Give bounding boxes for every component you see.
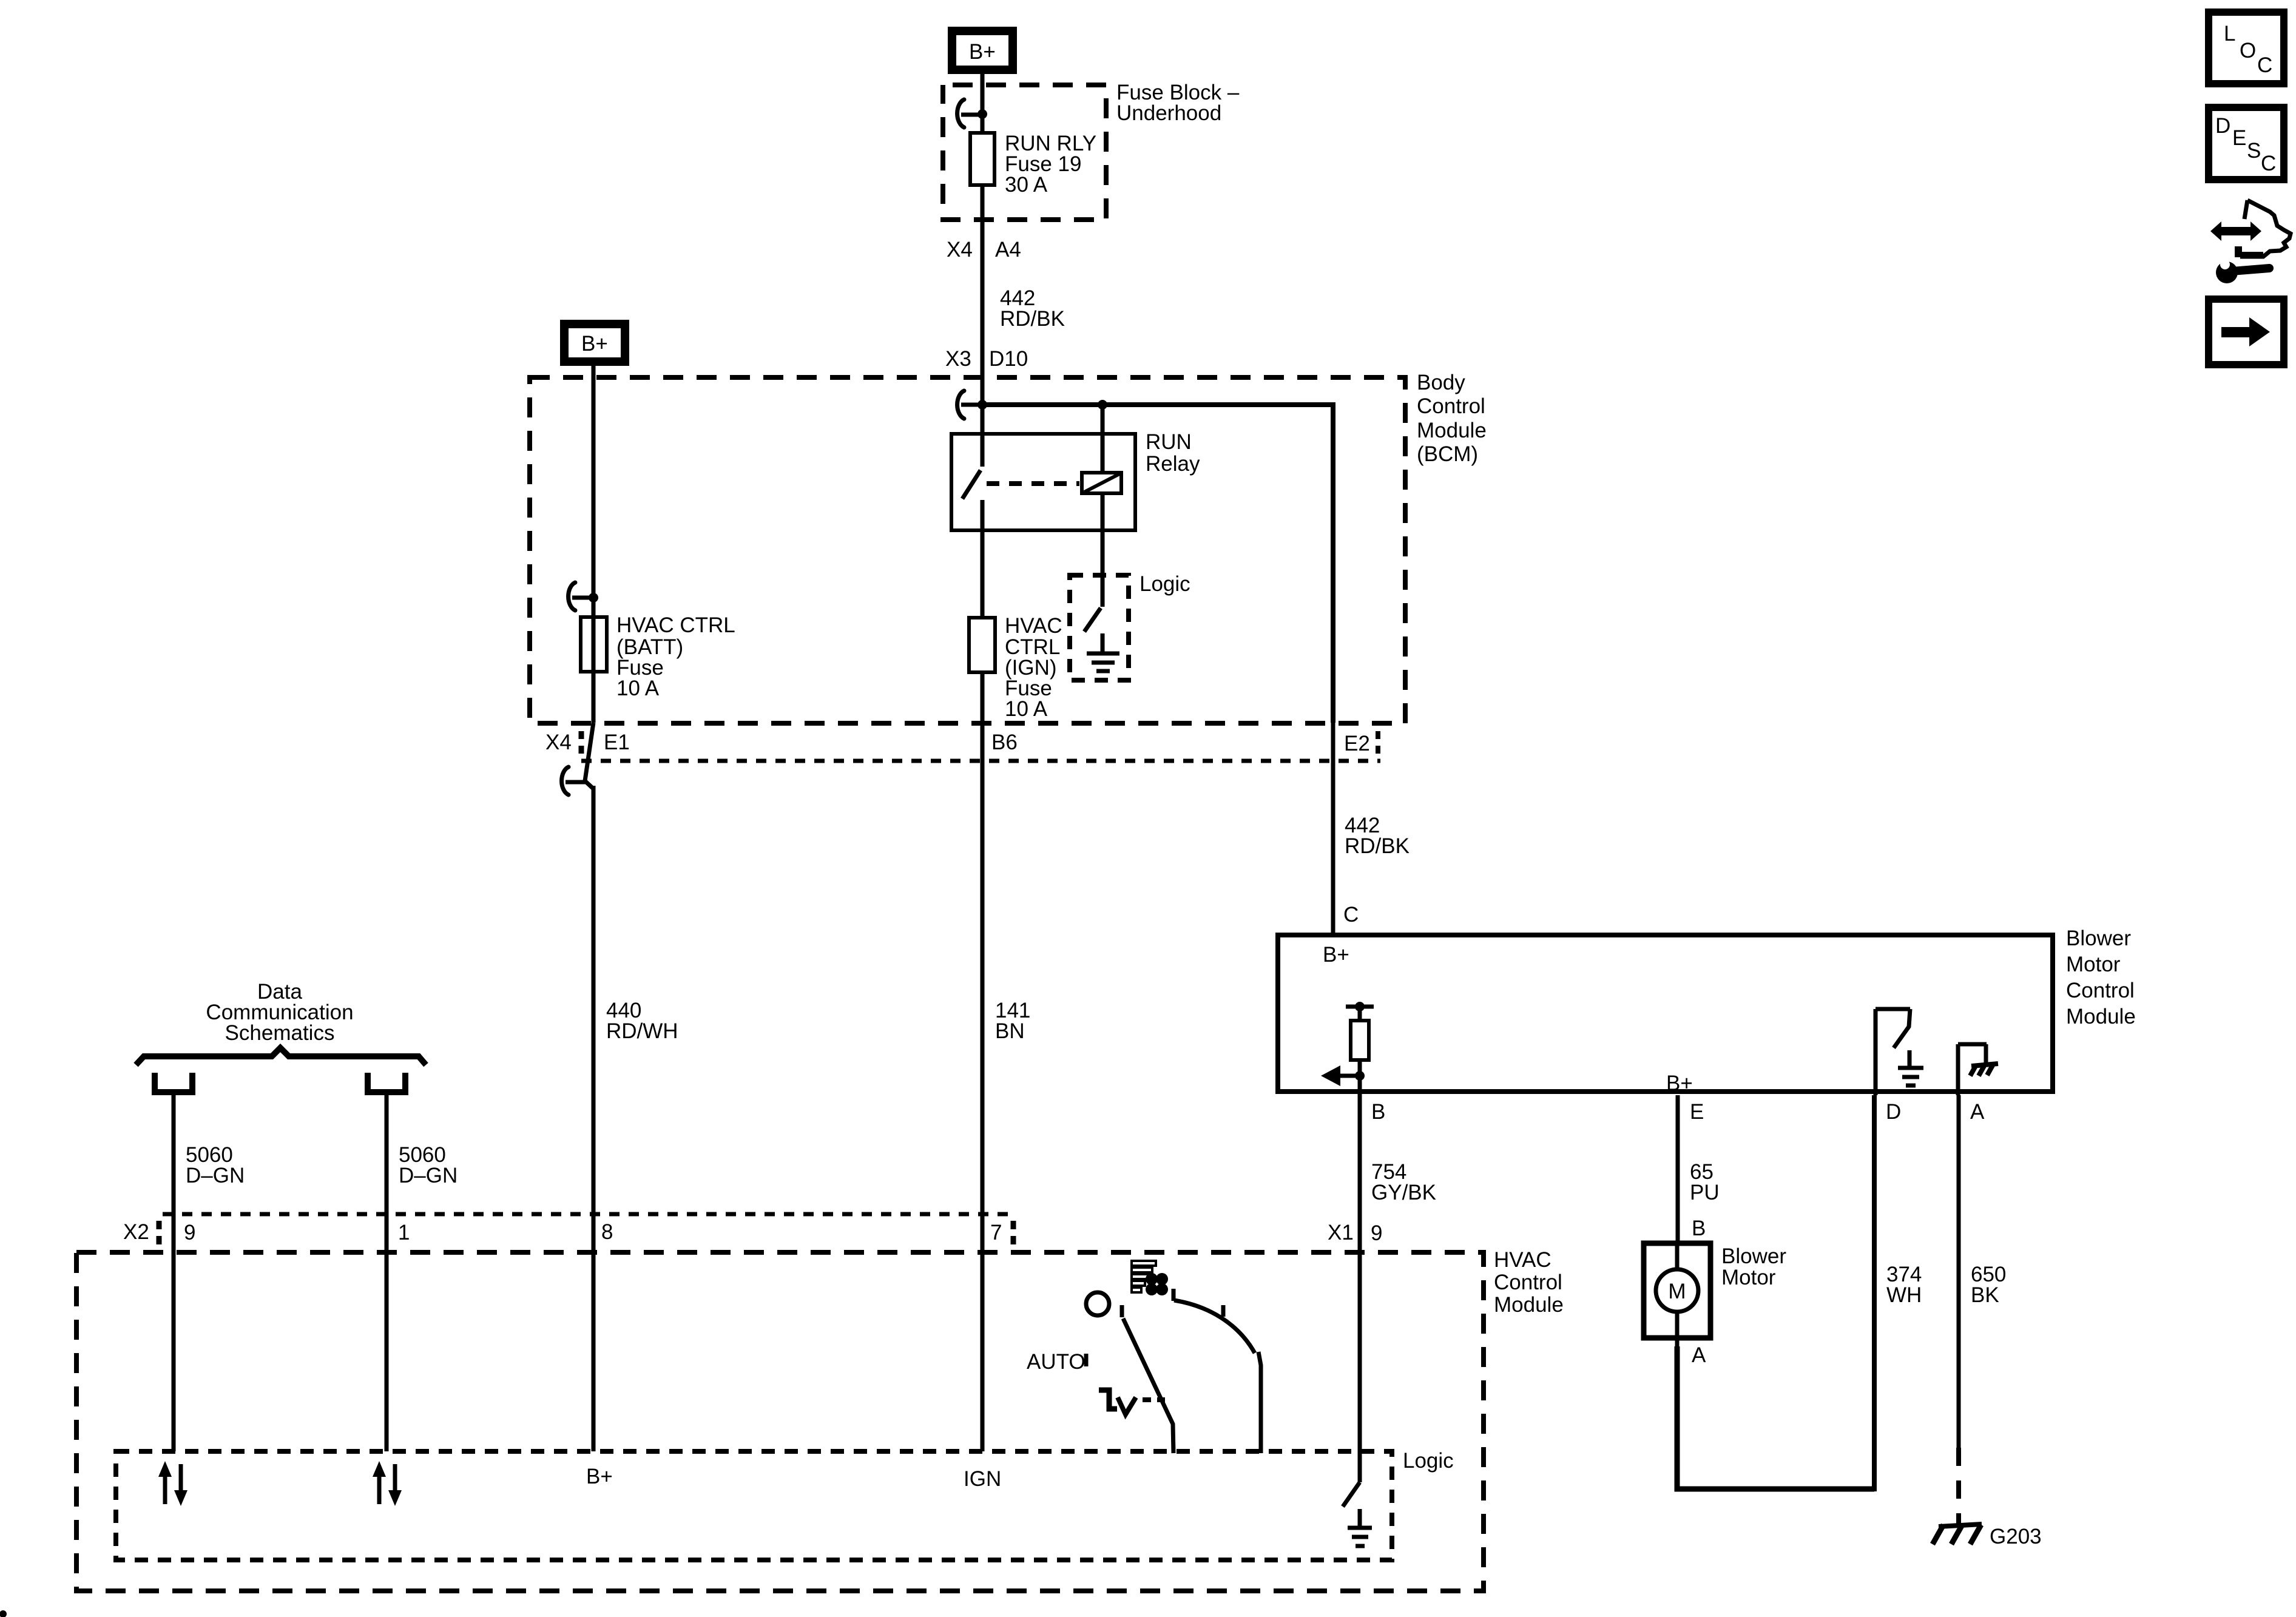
svg-text:G203: G203	[1990, 1525, 2042, 1548]
connector X4 separator dashes	[579, 731, 584, 755]
wire BCM internal bus to E2	[982, 405, 1333, 723]
svg-text:E2: E2	[1344, 732, 1370, 755]
svg-text:7: 7	[990, 1221, 1002, 1244]
wire fuse IGN to B6	[981, 672, 985, 723]
logic dashed box (HVAC)	[116, 1451, 1392, 1560]
connector terminal (serial data 2)	[368, 1073, 405, 1092]
wire 5060 D-GN (right)	[385, 1092, 389, 1451]
svg-text:Logic: Logic	[1140, 572, 1190, 596]
knob circle	[1086, 1292, 1109, 1315]
svg-text:Blower: Blower	[1721, 1244, 1786, 1268]
wire 440 RD/WH (E1 to HVAC pin 8)	[592, 786, 596, 1451]
logic switch blade	[1084, 608, 1101, 632]
junction node	[589, 593, 598, 603]
svg-text:BK: BK	[1971, 1283, 1999, 1307]
svg-text:Motor: Motor	[2066, 953, 2121, 976]
svg-text:C: C	[2257, 53, 2272, 77]
svg-text:Control: Control	[2066, 979, 2135, 1002]
svg-text:HVAC: HVAC	[1005, 614, 1062, 638]
svg-text:X4: X4	[947, 238, 973, 262]
svg-text:1: 1	[398, 1221, 410, 1244]
svg-text:D–GN: D–GN	[186, 1164, 245, 1187]
fan speed icon	[1132, 1261, 1156, 1266]
svg-text:9: 9	[184, 1221, 195, 1244]
svg-text:A: A	[1692, 1343, 1706, 1367]
svg-text:PU: PU	[1690, 1181, 1720, 1204]
wire D10 into BCM	[981, 377, 985, 434]
svg-text:B+: B+	[969, 40, 996, 64]
connector hook (BCM D10)	[957, 391, 964, 419]
icon LOC box	[2209, 12, 2284, 84]
svg-text:M: M	[1668, 1280, 1686, 1303]
junction node relay coil tap	[1098, 400, 1107, 410]
svg-text:RD/BK: RD/BK	[1000, 307, 1065, 331]
svg-text:Underhood: Underhood	[1116, 101, 1221, 125]
fan switch blade	[1120, 1305, 1124, 1317]
serial data arrows (right pair)	[377, 1473, 382, 1504]
fuse HVAC CTRL (BATT) 10A	[581, 617, 607, 672]
svg-text:GY/BK: GY/BK	[1371, 1181, 1436, 1204]
svg-text:X2: X2	[123, 1220, 149, 1244]
svg-text:C: C	[2261, 152, 2276, 175]
ground (module internal, pin D)	[1908, 1050, 1912, 1067]
fan blades icon	[1146, 1273, 1158, 1285]
wire E1 jog	[585, 723, 593, 789]
switch (module internal, pin D)	[1874, 1009, 1878, 1095]
wire 650 BK (pin A to G203)	[1957, 1095, 1961, 1448]
junction node	[977, 109, 987, 119]
wire 141 BN (B6 to HVAC pin 7)	[981, 723, 985, 1451]
svg-text:B+: B+	[1323, 943, 1349, 967]
svg-text:E: E	[2232, 126, 2246, 150]
page artifact dot (bottom-left corner)	[0, 1610, 7, 1617]
svg-text:E1: E1	[604, 731, 630, 754]
connector hook X4 (fuse block)	[957, 100, 964, 127]
svg-text:D10: D10	[989, 347, 1028, 371]
svg-text:Module: Module	[1417, 419, 1487, 442]
svg-text:(BCM): (BCM)	[1417, 442, 1478, 466]
resistor (module internal sense)	[1346, 1005, 1374, 1009]
svg-text:WH: WH	[1886, 1283, 1922, 1307]
svg-text:S: S	[2247, 139, 2261, 163]
svg-text:X3: X3	[945, 347, 971, 371]
connector E2 separator dashes	[1376, 731, 1380, 755]
svg-text:Control: Control	[1494, 1271, 1562, 1294]
wire 374 WH (pin D to motor return)	[1872, 1095, 1877, 1491]
wire 754 GY/BK (pin B to HVAC X1-9)	[1358, 1095, 1362, 1482]
connector hook (X4 E1)	[562, 767, 569, 795]
svg-text:HVAC: HVAC	[1494, 1248, 1551, 1272]
junction node D10	[977, 400, 987, 410]
connector X2 separator dashes	[157, 1221, 162, 1246]
logic dashed box (BCM)	[1070, 575, 1129, 680]
svg-text:30 A: 30 A	[1005, 173, 1048, 197]
svg-text:Schematics: Schematics	[225, 1021, 335, 1045]
junction node pin B	[1355, 1071, 1365, 1081]
icon arrow box	[2209, 299, 2284, 365]
svg-text:X1: X1	[1328, 1221, 1354, 1244]
wire relay output	[981, 500, 985, 618]
icon DESC box	[2209, 107, 2284, 180]
svg-text:10 A: 10 A	[616, 677, 660, 700]
wire blower motor return	[1677, 1346, 1874, 1489]
chassis ground G203	[1939, 1524, 1982, 1527]
svg-text:C: C	[1343, 903, 1359, 927]
X1 logic switch blade	[1343, 1482, 1360, 1507]
serial data arrows (left pair)	[163, 1473, 167, 1504]
wire 442 RD/BK (E2 to blower module pin C)	[1331, 723, 1335, 933]
connector row dotted line (BCM bottom, X4)	[581, 759, 1380, 763]
svg-text:B+: B+	[586, 1465, 613, 1488]
svg-text:E: E	[1690, 1100, 1704, 1124]
fuse RUN RLY Fuse 19 30A	[970, 133, 994, 185]
arrow (PWM output)	[1338, 1074, 1360, 1078]
svg-text:B+: B+	[1666, 1072, 1693, 1095]
power symbol B+ (battery feed, top)	[952, 31, 1013, 70]
wire relay coil to logic	[1101, 493, 1105, 607]
svg-text:B+: B+	[581, 332, 608, 356]
wire 5060 D-GN (left)	[172, 1092, 176, 1451]
fan switch arc	[1172, 1289, 1176, 1301]
svg-text:AUTO: AUTO	[1027, 1350, 1086, 1374]
relay RUN Relay box	[951, 434, 1135, 530]
blower motor control module box	[1278, 935, 2053, 1092]
svg-text:B: B	[1692, 1217, 1706, 1240]
blower motor M circle	[1675, 1241, 1680, 1270]
svg-text:A: A	[1970, 1100, 1985, 1124]
svg-text:D: D	[2215, 114, 2230, 138]
wire 65 PU (pin E to blower motor)	[1676, 1095, 1680, 1241]
brace (data communication)	[136, 1048, 426, 1065]
svg-text:9: 9	[1371, 1221, 1382, 1245]
wire B+ to fuse 19	[981, 70, 985, 135]
svg-text:O: O	[2240, 39, 2256, 62]
svg-text:RD/WH: RD/WH	[606, 1019, 678, 1043]
wire B+ to BCM	[592, 366, 596, 596]
svg-text:Blower: Blower	[2066, 927, 2131, 950]
svg-text:RD/BK: RD/BK	[1345, 834, 1410, 858]
svg-text:B: B	[1371, 1100, 1385, 1124]
relay switch blade	[962, 470, 981, 499]
svg-text:X4: X4	[545, 731, 572, 754]
svg-text:RUN: RUN	[1146, 430, 1192, 454]
svg-text:Motor: Motor	[1721, 1266, 1776, 1289]
svg-text:10 A: 10 A	[1005, 697, 1048, 721]
fuse block - underhood dashed box	[943, 85, 1106, 220]
svg-text:8: 8	[601, 1220, 613, 1244]
svg-text:Body: Body	[1417, 371, 1465, 394]
relay switch fixed stub	[981, 434, 985, 467]
relay coil	[1082, 473, 1121, 493]
wire fuse to E1	[592, 596, 596, 723]
svg-text:B6: B6	[991, 731, 1018, 754]
AUTO position tick	[1084, 1354, 1089, 1366]
svg-text:D–GN: D–GN	[399, 1164, 458, 1187]
svg-text:Relay: Relay	[1146, 452, 1200, 476]
connector row dotted line (HVAC X2)	[163, 1212, 1013, 1217]
connector hook (BCM batt feed)	[569, 582, 575, 610]
wire relay coil feed	[1101, 405, 1105, 473]
svg-text:Logic: Logic	[1403, 1449, 1454, 1473]
svg-text:Control: Control	[1417, 394, 1485, 418]
relay actuation dashed link	[987, 481, 1079, 486]
svg-text:BN: BN	[995, 1019, 1025, 1043]
connector pin-7 separator dashes	[1011, 1221, 1016, 1246]
connector terminal (serial data 1)	[155, 1073, 192, 1092]
blower motor box	[1644, 1243, 1710, 1338]
svg-text:L: L	[2224, 22, 2235, 46]
wire fuse 19 to X4/A4	[981, 187, 985, 377]
defrost icon	[1099, 1390, 1117, 1409]
fuse HVAC CTRL (IGN) 10A	[969, 618, 995, 672]
svg-text:IGN: IGN	[964, 1467, 1001, 1491]
HVAC control module dashed box	[76, 1252, 1484, 1591]
body control module (BCM) dashed box	[530, 377, 1405, 723]
svg-text:Module: Module	[1494, 1293, 1564, 1317]
ground (BCM logic)	[1101, 633, 1105, 653]
ground (HVAC logic)	[1358, 1509, 1362, 1527]
svg-text:Module: Module	[2066, 1005, 2136, 1028]
svg-text:D: D	[1886, 1100, 1901, 1124]
power symbol B+ (BCM feed)	[564, 324, 625, 362]
svg-text:A4: A4	[995, 238, 1021, 262]
icon schematic-wrench	[2210, 221, 2261, 241]
svg-text:HVAC CTRL: HVAC CTRL	[616, 613, 735, 637]
chassis ground (module internal, pin A)	[1956, 1044, 1960, 1095]
